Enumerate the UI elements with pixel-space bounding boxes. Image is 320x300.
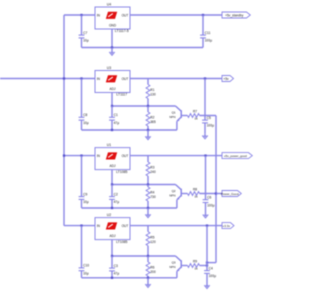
svg-text:LT1085: LT1085	[116, 170, 127, 174]
ground row1	[111, 48, 113, 53]
capacitor C1 47u adj	[111, 106, 113, 117]
svg-text:R1: R1	[150, 88, 154, 92]
node junction R1/R2/adj wire	[147, 105, 149, 107]
net label +5v_power_good	[222, 153, 252, 159]
wire: row2 ground rail	[82, 129, 177, 131]
svg-text:Q1: Q1	[172, 111, 176, 115]
wire: row1 OUT to +5v_standby flag	[130, 14, 222, 16]
svg-text:R3: R3	[150, 166, 154, 170]
capacitor C2 47u adj	[111, 185, 113, 197]
resistor R5 120 (OUT to ADJ)	[147, 226, 149, 232]
svg-text:Q3: Q3	[172, 261, 176, 265]
capacitor C7 10u input bypass	[81, 15, 83, 35]
svg-text:ADJ: ADJ	[109, 234, 115, 238]
ground row4 output cap	[206, 284, 208, 287]
capacitor C3 47u adj	[111, 256, 113, 268]
wire: power-good net L-bend to C4 branch	[207, 262, 216, 264]
svg-text:OUT: OUT	[122, 77, 129, 81]
svg-text:730: 730	[150, 195, 156, 199]
svg-text:+5v: +5v	[223, 77, 229, 81]
transistor Q3 (NPN)	[169, 256, 187, 271]
transistor Q2 (NPN)	[169, 185, 187, 200]
svg-text:120: 120	[150, 240, 156, 244]
wire: Q1 emitter down to rail	[176, 121, 178, 130]
wire: row2 adj node horizontal to divider and Q1 collector	[112, 105, 176, 107]
wire: row2 input from left edge to U3 IN	[0, 78, 95, 80]
svg-text:10µ: 10µ	[83, 39, 89, 43]
net label +5v	[222, 76, 234, 82]
svg-text:ADJ: ADJ	[109, 164, 115, 168]
node junction OUT / C4	[206, 224, 208, 226]
node junction R6/rail	[147, 277, 149, 279]
svg-text:100µ: 100µ	[209, 274, 217, 278]
wire: row3 OUT to +5v_power_good flag	[130, 155, 222, 157]
resistor R2 365 (ADJ to GND)	[147, 106, 149, 112]
wire: Q3 base resistor to output cap node	[200, 265, 208, 267]
svg-text:+5v_power_good: +5v_power_good	[224, 154, 247, 158]
wire: row4 ADJ pin down to adj node	[111, 240, 113, 256]
svg-text:10µ: 10µ	[83, 272, 89, 276]
svg-text:100µ: 100µ	[207, 124, 215, 128]
node junction GND pin / rail	[111, 46, 113, 48]
regulator U2 (LT1085)	[95, 213, 130, 244]
svg-text:130: 130	[150, 93, 156, 97]
node junction ADJ / C3	[111, 255, 113, 257]
node junction row2 input / C8	[80, 77, 82, 79]
svg-text:100µ: 100µ	[205, 39, 213, 43]
svg-text:C3: C3	[114, 264, 118, 268]
svg-text:Q2: Q2	[172, 189, 176, 193]
wire: Q1 base resistor to power-good net	[200, 115, 217, 117]
wire: row4 input from bus to U2 IN	[64, 225, 95, 227]
svg-text:10µ: 10µ	[83, 121, 89, 125]
svg-text:LT1085: LT1085	[116, 240, 127, 244]
node junction row3 input / C9	[80, 154, 82, 156]
wire: power-good vertical net x216	[215, 116, 217, 263]
node junction pg net / C4 branch	[206, 261, 208, 263]
resistor R6 200 (ADJ to GND)	[147, 256, 149, 262]
wire: Q3 emitter down to rail	[176, 271, 178, 278]
svg-text:365: 365	[150, 120, 156, 124]
wire: row3 ADJ pin down to adj node	[111, 170, 113, 185]
wire: Q2 emitter down to rail	[176, 200, 178, 208]
wire: row3 ground rail	[82, 207, 177, 209]
resistor R7 1k (Q1 base)	[188, 114, 200, 118]
resistor R8 1k (Q2 base)	[188, 192, 200, 196]
node junction OUT / C6	[204, 154, 206, 156]
capacitor C9 10u input bypass	[81, 156, 83, 197]
svg-text:240: 240	[150, 170, 156, 174]
wire: Q2 base resistor to power-good net	[200, 193, 217, 195]
svg-text:47µ: 47µ	[114, 121, 120, 125]
svg-text:200: 200	[150, 270, 156, 274]
svg-text:1k: 1k	[194, 194, 198, 198]
svg-text:10µ: 10µ	[83, 200, 89, 204]
svg-text:ADJ: ADJ	[109, 87, 115, 91]
node junction R2/rail	[147, 129, 149, 131]
svg-text:Power_Good: Power_Good	[221, 192, 239, 196]
wire: row1 input from bus to U4 IN	[64, 14, 95, 16]
node junction ADJ / C2	[111, 183, 113, 185]
svg-text:U3: U3	[107, 66, 111, 70]
svg-text:47µ: 47µ	[114, 272, 120, 276]
svg-text:LT1117-5: LT1117-5	[115, 29, 129, 33]
svg-text:U4: U4	[107, 2, 111, 6]
svg-text:C4: C4	[209, 266, 213, 270]
resistor R4 730 (ADJ to GND)	[147, 185, 149, 188]
svg-text:R5: R5	[150, 235, 154, 239]
wire: stub to Power_Good flag	[216, 193, 222, 195]
node junction bus / row3 input	[63, 154, 65, 156]
wire: row1 GND pin down	[111, 29, 113, 48]
wire: row4 ground rail	[82, 277, 177, 279]
node junction row4 input / C10	[80, 224, 82, 226]
capacitor C11 100u output	[202, 15, 204, 35]
svg-text:NPN: NPN	[169, 265, 175, 269]
capacitor C5 100u output	[204, 79, 206, 121]
ground row3 divider	[147, 208, 149, 215]
ground row2 output cap	[204, 134, 206, 137]
node junction base wire / C4 branch	[206, 264, 208, 266]
net label Power_Good	[222, 191, 241, 197]
svg-text:C7: C7	[83, 31, 87, 35]
wire: row2 OUT to +5v flag	[130, 78, 222, 80]
node junction power-good net / flag stub	[215, 192, 217, 194]
svg-text:C6: C6	[207, 196, 211, 200]
capacitor C4 100u output	[206, 226, 208, 271]
svg-text:U1: U1	[107, 143, 111, 147]
svg-text:C10: C10	[83, 264, 89, 268]
svg-text:NPN: NPN	[169, 115, 175, 119]
wire: row2 ADJ pin down to adj node	[111, 93, 113, 107]
capacitor C10 10u input bypass	[81, 226, 83, 268]
regulator U4 (LT1117-5)	[95, 2, 130, 33]
wire: row3 input from bus to U1 IN	[64, 155, 95, 157]
svg-text:C5: C5	[207, 116, 211, 120]
svg-text:OUT: OUT	[122, 154, 129, 158]
svg-text:R8: R8	[193, 187, 197, 191]
svg-text:C11: C11	[205, 31, 211, 35]
node junction bus / row2 input	[63, 77, 65, 79]
node junction OUT / C11	[202, 14, 204, 16]
node junction C2/rail	[111, 207, 113, 209]
wire: row4 OUT to +3.3v flag	[130, 225, 222, 227]
svg-text:R9: R9	[193, 259, 197, 263]
wire: row1 ground rail	[82, 47, 204, 49]
ground row3 output cap	[205, 214, 207, 216]
svg-text:LT1117: LT1117	[116, 93, 127, 97]
regulator U1 (LT1085)	[95, 143, 130, 174]
node junction row1 input / C7	[80, 14, 82, 16]
wire: row4 adj node horizontal to divider and Q3 collector	[112, 255, 176, 257]
svg-text:C2: C2	[114, 192, 118, 196]
regulator U3 (LT1117)	[95, 66, 130, 97]
svg-text:C1: C1	[114, 113, 118, 117]
capacitor C8 10u input bypass	[81, 79, 83, 118]
node junction C3/rail	[111, 277, 113, 279]
ground row4 divider	[147, 278, 149, 285]
wire: row3 adj node horizontal to divider and Q2 collector	[112, 184, 176, 186]
svg-text:R2: R2	[150, 116, 154, 120]
node junction R3/R4/adj wire	[147, 183, 149, 185]
resistor R9 1k (Q3 base)	[188, 264, 200, 268]
ground row2 divider	[147, 130, 149, 137]
svg-text:+5v_standby: +5v_standby	[225, 13, 244, 17]
resistor R3 240 (OUT to ADJ)	[147, 156, 149, 162]
svg-text:47µ: 47µ	[114, 200, 120, 204]
node junction R5/R6/adj wire	[147, 255, 149, 257]
svg-text:NPN: NPN	[169, 194, 175, 198]
resistor R1 130 (OUT to ADJ)	[147, 79, 149, 85]
node junction OUT / C5	[204, 77, 206, 79]
net label +3.3v	[222, 223, 234, 229]
svg-text:C8: C8	[83, 113, 87, 117]
svg-text:R7: R7	[193, 109, 197, 113]
svg-text:GND: GND	[109, 23, 117, 27]
svg-text:+3.3v: +3.3v	[223, 224, 231, 228]
transistor Q1 (NPN)	[169, 106, 187, 121]
net label +5v_standby	[222, 12, 250, 18]
capacitor C6 100u output	[205, 156, 207, 200]
node junction R4/rail	[147, 207, 149, 209]
svg-text:1k: 1k	[194, 266, 198, 270]
svg-text:U2: U2	[107, 213, 111, 217]
svg-text:OUT: OUT	[122, 224, 129, 228]
svg-text:C9: C9	[83, 192, 87, 196]
wire: main input bus vertical	[63, 15, 65, 226]
svg-text:1k: 1k	[194, 116, 198, 120]
svg-text:R6: R6	[150, 266, 154, 270]
svg-text:100µ: 100µ	[207, 203, 215, 207]
svg-text:OUT: OUT	[122, 13, 129, 17]
node junction C1/rail	[111, 129, 113, 131]
svg-text:R4: R4	[150, 191, 154, 195]
node junction ADJ / C1	[111, 105, 113, 107]
